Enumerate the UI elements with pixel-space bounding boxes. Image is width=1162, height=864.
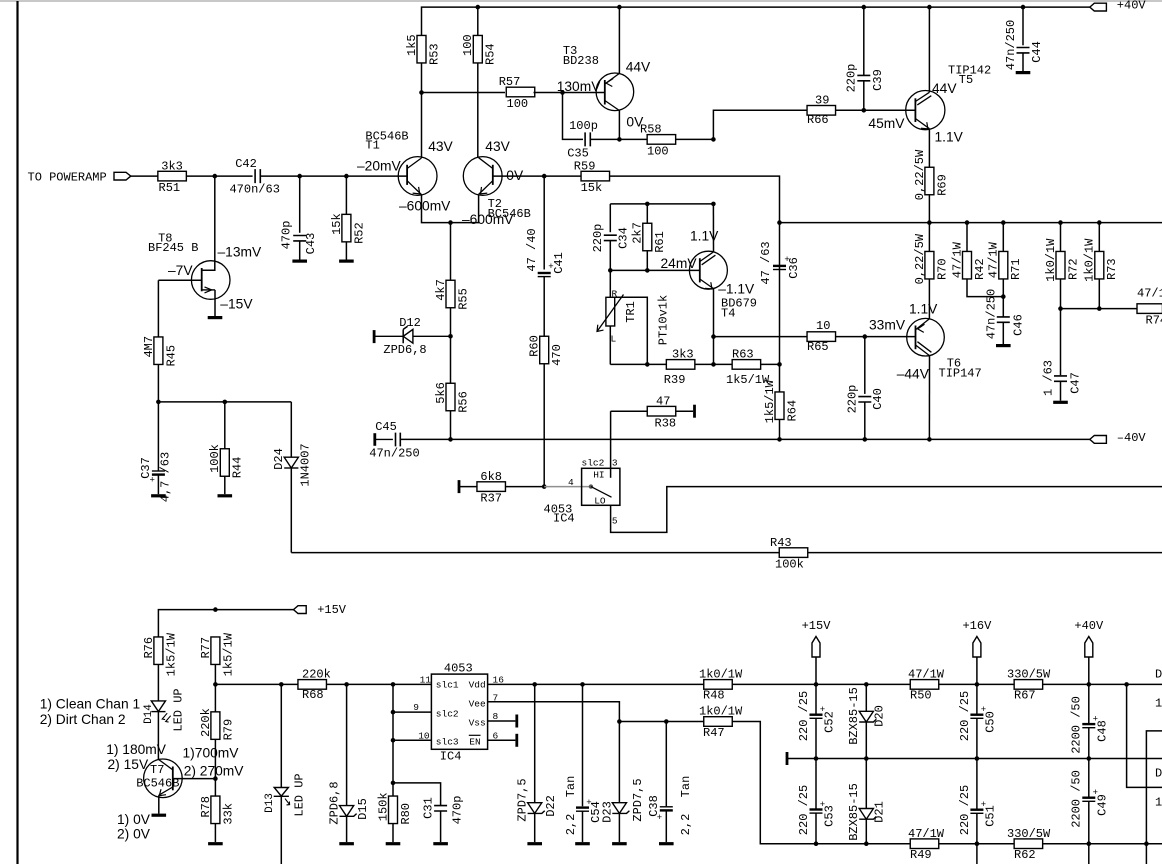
wire <box>779 364 781 392</box>
junction <box>448 334 453 339</box>
svg-text:1.1V: 1.1V <box>909 302 938 317</box>
wire <box>422 92 506 94</box>
wire Vdd net <box>732 683 1162 685</box>
wire <box>619 721 703 723</box>
wire <box>863 81 865 111</box>
svg-text:1k0/1W: 1k0/1W <box>1044 238 1058 282</box>
svg-text:R66: R66 <box>807 113 829 127</box>
svg-text:R49: R49 <box>910 848 932 862</box>
wire <box>440 811 442 842</box>
svg-text:100k: 100k <box>208 444 222 473</box>
wire <box>714 336 808 338</box>
junction <box>1124 682 1129 687</box>
ground C38 <box>659 842 674 845</box>
resistor R62 <box>1007 827 1051 862</box>
wire <box>1022 53 1024 71</box>
resistor R80 <box>376 792 413 824</box>
svg-text:1k0/1W: 1k0/1W <box>1083 238 1097 282</box>
wire <box>544 175 581 177</box>
svg-text:R63: R63 <box>732 348 754 362</box>
svg-text:43V: 43V <box>485 139 510 154</box>
wire <box>280 684 282 787</box>
junction <box>814 682 819 687</box>
wire <box>676 410 693 412</box>
svg-text:1.1V: 1.1V <box>690 229 719 244</box>
svg-text:C34: C34 <box>617 227 631 249</box>
ground C44 <box>1016 71 1031 74</box>
svg-text:R61: R61 <box>653 231 667 253</box>
svg-text:15k: 15k <box>330 213 344 235</box>
junction <box>213 174 218 179</box>
wire T5 emitter <box>928 129 930 168</box>
wire <box>609 326 611 364</box>
junction <box>1021 5 1026 10</box>
svg-text:D13: D13 <box>264 793 276 813</box>
junction <box>344 174 349 179</box>
svg-text:slc1: slc1 <box>436 680 459 691</box>
wire <box>450 411 452 440</box>
terminal pin 6 <box>515 734 518 747</box>
wire emitters <box>422 194 479 222</box>
svg-text:–44V: –44V <box>897 366 930 381</box>
svg-text:ZPD6,8: ZPD6,8 <box>383 343 426 357</box>
resistor R57 <box>499 75 535 111</box>
svg-text:1k5/1W: 1k5/1W <box>221 632 235 676</box>
ground D15 <box>339 842 354 845</box>
svg-text:R47: R47 <box>703 726 725 740</box>
svg-text:0,22/5W: 0,22/5W <box>913 149 927 200</box>
svg-text:330/5W: 330/5W <box>1007 827 1051 841</box>
capacitor C42 <box>229 157 279 196</box>
junction <box>1087 682 1092 687</box>
svg-text:1N4007: 1N4007 <box>299 443 313 486</box>
junction <box>344 682 349 687</box>
svg-text:0V: 0V <box>506 168 524 183</box>
svg-text:R52: R52 <box>352 222 366 244</box>
transistor T7 <box>136 759 182 798</box>
wire <box>299 241 301 260</box>
wire <box>157 665 159 701</box>
svg-text:1k5: 1k5 <box>405 34 419 56</box>
svg-text:2200 /50: 2200 /50 <box>1070 770 1084 828</box>
capacitor C46 <box>985 289 1026 339</box>
junction <box>645 268 650 273</box>
junction <box>777 220 782 225</box>
svg-text:R64: R64 <box>785 400 799 422</box>
wire <box>815 813 817 844</box>
svg-text:39: 39 <box>815 93 829 107</box>
ground C54 <box>575 842 590 845</box>
wire <box>1060 223 1062 252</box>
svg-text:C38: C38 <box>647 795 661 817</box>
wire +40V rail <box>422 7 1091 35</box>
svg-text:C45: C45 <box>375 420 397 434</box>
svg-text:10: 10 <box>816 319 830 333</box>
svg-text:470p: 470p <box>450 796 464 825</box>
svg-text:44V: 44V <box>626 60 651 75</box>
wire bias net <box>158 401 291 403</box>
svg-text:R65: R65 <box>807 340 829 354</box>
capacitor C44 <box>1004 20 1044 70</box>
wire <box>779 420 781 440</box>
junction <box>1058 306 1063 311</box>
svg-text:D12: D12 <box>399 316 421 330</box>
wire T7 base <box>173 778 216 780</box>
svg-text:BF245 B: BF245 B <box>148 241 198 255</box>
svg-text:R59: R59 <box>574 159 596 173</box>
resistor R58 <box>640 123 676 159</box>
svg-text:R77: R77 <box>199 637 213 659</box>
wire <box>966 223 968 252</box>
wire <box>543 277 545 337</box>
wire <box>1088 759 1090 797</box>
wire <box>1098 223 1100 252</box>
junction <box>223 400 228 405</box>
svg-text:R55: R55 <box>456 288 470 310</box>
resistor R42 <box>950 241 987 280</box>
svg-text:BZX85-15: BZX85-15 <box>847 687 861 745</box>
svg-text:R42: R42 <box>973 258 987 280</box>
wire <box>695 363 732 365</box>
junction <box>864 841 869 846</box>
svg-text:220 /25: 220 /25 <box>797 785 811 835</box>
wire <box>214 824 216 843</box>
svg-text:–40V: –40V <box>1117 431 1147 445</box>
svg-text:47n/250: 47n/250 <box>985 289 999 339</box>
svg-text:T4: T4 <box>721 306 735 320</box>
wire <box>1002 322 1004 344</box>
wire <box>1088 728 1090 759</box>
resistor R51 <box>158 159 187 195</box>
wire <box>610 363 666 365</box>
svg-text:R43: R43 <box>770 536 792 550</box>
ground C31 <box>433 842 448 845</box>
wire <box>865 759 867 809</box>
svg-text:4: 4 <box>568 477 574 488</box>
junction <box>448 220 453 225</box>
svg-text:C40: C40 <box>871 388 885 410</box>
wire <box>299 176 301 233</box>
svg-text:R48: R48 <box>703 689 725 703</box>
svg-text:TO POWERAMP: TO POWERAMP <box>28 170 107 184</box>
wire T3 emitter <box>618 7 620 73</box>
svg-text:1.1V: 1.1V <box>935 130 964 145</box>
svg-text:R44: R44 <box>231 457 245 479</box>
junction <box>1087 841 1092 846</box>
svg-text:330/5W: 330/5W <box>1007 668 1051 682</box>
terminal R38 <box>693 405 696 418</box>
capacitor C54 <box>564 776 603 823</box>
zener D15 <box>328 781 370 824</box>
svg-text:R74: R74 <box>1146 313 1162 327</box>
wire <box>618 813 620 842</box>
svg-text:D20: D20 <box>873 705 887 727</box>
wire <box>186 175 252 177</box>
junction <box>1097 220 1102 225</box>
junction <box>542 484 547 489</box>
svg-text:1k0/1W: 1k0/1W <box>699 668 743 682</box>
wire <box>534 813 536 842</box>
svg-text:47/1W: 47/1W <box>908 668 945 682</box>
svg-text:R37: R37 <box>480 492 502 506</box>
svg-text:TIP147: TIP147 <box>939 367 982 381</box>
wire +15V rail <box>158 610 293 637</box>
svg-text:220k: 220k <box>199 708 213 737</box>
ground R44 <box>218 494 233 497</box>
svg-text:Vdd: Vdd <box>469 680 486 691</box>
svg-text:R50: R50 <box>910 689 932 703</box>
svg-text:4k7: 4k7 <box>434 279 448 301</box>
resistor R49 <box>908 827 945 862</box>
svg-text:+16V: +16V <box>962 619 992 633</box>
svg-text:D: D <box>1155 766 1162 780</box>
svg-text:ZPD7,5: ZPD7,5 <box>516 778 530 821</box>
wire <box>646 251 648 271</box>
wire <box>815 759 817 809</box>
terminal R37 <box>458 480 461 493</box>
resistor R47 <box>699 705 743 740</box>
svg-text:+40V: +40V <box>1074 619 1104 633</box>
svg-text:R73: R73 <box>1105 258 1119 280</box>
wire <box>346 684 348 805</box>
svg-text:2) 0V: 2) 0V <box>117 826 151 841</box>
svg-text:R45: R45 <box>164 345 178 367</box>
wire T6 emitter <box>928 356 930 440</box>
wire <box>1061 308 1138 310</box>
connector TO POWERAMP <box>114 172 131 180</box>
svg-text:TR1: TR1 <box>624 301 638 323</box>
wire <box>534 684 536 802</box>
junction <box>862 108 867 113</box>
resistor R55 <box>434 279 471 310</box>
svg-text:C50: C50 <box>983 711 997 733</box>
power flag -40V <box>1090 431 1147 445</box>
svg-text:R56: R56 <box>456 391 470 413</box>
junction <box>711 202 716 207</box>
wire <box>157 365 159 402</box>
junction <box>617 137 622 142</box>
svg-text:C36: C36 <box>787 257 801 279</box>
junction <box>711 362 716 367</box>
ground R80 <box>386 842 401 845</box>
svg-text:1k5/1W: 1k5/1W <box>164 632 178 676</box>
power flag +16V up <box>962 619 992 657</box>
svg-text:2200 /50: 2200 /50 <box>1070 696 1084 754</box>
transistor T4 <box>689 251 757 320</box>
svg-text:4M7: 4M7 <box>142 336 156 358</box>
resistor R59 <box>574 159 610 195</box>
svg-text:R69: R69 <box>935 174 949 196</box>
wire <box>646 204 648 223</box>
capacitor C48 <box>1070 696 1110 754</box>
LED D13 <box>264 773 307 816</box>
svg-text:3k3: 3k3 <box>161 159 183 173</box>
svg-text:–7V: –7V <box>168 263 193 278</box>
wire T1 collector <box>421 63 423 158</box>
wire <box>611 410 648 412</box>
svg-text:R68: R68 <box>302 688 324 702</box>
resistor R45 <box>142 336 179 367</box>
svg-text:1) 180mV: 1) 180mV <box>106 742 167 757</box>
svg-text:BD238: BD238 <box>563 54 599 68</box>
svg-text:+15V: +15V <box>802 619 832 633</box>
wire <box>1060 381 1062 400</box>
junction <box>1058 220 1063 225</box>
zener D21 <box>847 783 886 841</box>
wire <box>928 279 930 319</box>
wire <box>131 175 158 177</box>
power flag +40V up <box>1074 619 1104 657</box>
ground R78 <box>208 842 223 845</box>
wire T6 base <box>836 336 916 338</box>
svg-text:45mV: 45mV <box>868 116 905 131</box>
wire T8 drain <box>202 176 215 270</box>
wire <box>590 138 647 140</box>
capacitor C45 <box>369 420 419 461</box>
svg-text:R53: R53 <box>427 43 441 65</box>
svg-text:LED UP: LED UP <box>292 773 306 816</box>
wire <box>1002 279 1004 317</box>
svg-text:470n/63: 470n/63 <box>229 183 279 197</box>
wire <box>928 223 930 252</box>
capacitor C53 <box>797 785 837 835</box>
svg-text:R71: R71 <box>1009 258 1023 280</box>
diode D12 <box>374 316 450 357</box>
svg-text:C49: C49 <box>1095 794 1109 816</box>
svg-text:slc2: slc2 <box>582 458 605 469</box>
svg-text:47/1: 47/1 <box>1137 287 1162 301</box>
svg-text:Tan: Tan <box>679 776 693 798</box>
svg-text:C41: C41 <box>552 252 566 274</box>
svg-text:C47: C47 <box>1069 372 1083 394</box>
wire <box>976 657 978 714</box>
resistor R68 <box>298 668 331 702</box>
junction <box>391 738 396 743</box>
svg-text:47/1W: 47/1W <box>950 241 964 278</box>
wire T8 gate <box>158 279 201 281</box>
capacitor C51 <box>958 785 998 835</box>
svg-text:470: 470 <box>550 344 564 366</box>
wire <box>779 270 781 365</box>
svg-text:220p: 220p <box>845 64 859 93</box>
svg-text:C43: C43 <box>304 233 318 255</box>
svg-text:R70: R70 <box>935 258 949 280</box>
wire <box>713 110 807 139</box>
svg-text:47 /63: 47 /63 <box>759 241 773 284</box>
terminal pin 8 <box>515 715 518 728</box>
wire <box>1088 657 1090 723</box>
power flag +40V <box>1090 0 1147 13</box>
wire <box>450 223 452 281</box>
wire <box>976 759 978 809</box>
svg-text:R54: R54 <box>484 43 498 65</box>
wire <box>214 665 216 712</box>
junction <box>975 682 980 687</box>
resistor R78 <box>199 796 236 825</box>
wire R43 net left <box>291 552 779 554</box>
svg-text:100: 100 <box>507 97 529 111</box>
svg-text:R76: R76 <box>142 637 156 659</box>
svg-text:T5: T5 <box>959 73 973 87</box>
wire <box>543 364 545 487</box>
junction <box>1144 841 1149 846</box>
svg-text:EN: EN <box>469 736 480 747</box>
svg-text:D22: D22 <box>544 795 558 817</box>
wire T3 collector <box>618 111 620 140</box>
wire <box>506 486 545 488</box>
junction <box>1097 306 1102 311</box>
svg-text:47n/250: 47n/250 <box>1004 20 1018 70</box>
wire from off-sheet <box>1146 731 1162 844</box>
wire T8 source <box>214 290 216 316</box>
svg-text:0,22/5W: 0,22/5W <box>913 233 927 284</box>
svg-text:ZPD7,5: ZPD7,5 <box>631 778 645 821</box>
wire T7 emitter <box>158 795 160 813</box>
capacitor C47 <box>1041 360 1082 396</box>
transistor T8 <box>148 231 230 299</box>
junction <box>927 437 932 442</box>
junction <box>975 756 980 761</box>
wire <box>459 486 477 488</box>
wire ground rail <box>787 758 1162 760</box>
svg-text:LO: LO <box>594 496 606 507</box>
wire <box>157 712 159 760</box>
wire <box>665 811 667 842</box>
wire <box>976 813 978 864</box>
junction <box>814 841 819 846</box>
wire <box>280 796 282 864</box>
transistor T3 <box>563 44 634 111</box>
svg-text:R60: R60 <box>528 335 542 357</box>
svg-text:D15: D15 <box>356 798 370 820</box>
wire <box>976 718 978 758</box>
junction <box>864 682 869 687</box>
svg-text:220p: 220p <box>846 385 860 414</box>
svg-text:R79: R79 <box>221 719 235 741</box>
junction <box>297 174 302 179</box>
svg-text:33k: 33k <box>221 803 235 825</box>
svg-text:C46: C46 <box>1012 314 1026 336</box>
wire <box>224 476 226 494</box>
ground T7 <box>152 814 167 817</box>
resistor R50 <box>908 668 945 703</box>
junction <box>645 362 650 367</box>
svg-text:HI: HI <box>593 469 604 480</box>
wire <box>761 363 780 365</box>
wire <box>543 176 545 269</box>
capacitor C38 <box>647 776 693 823</box>
transistor T1 <box>365 129 437 195</box>
svg-text:2) 270mV: 2) 270mV <box>184 763 245 778</box>
svg-text:+15V: +15V <box>317 603 347 617</box>
wire switch pin 3 <box>610 411 612 478</box>
sheet frame <box>0 0 1162 2</box>
svg-text:2) Dirt Chan 2: 2) Dirt Chan 2 <box>40 712 126 727</box>
wire <box>392 824 394 843</box>
wire <box>582 684 584 806</box>
junction <box>965 220 970 225</box>
wire <box>779 223 781 270</box>
svg-text:R62: R62 <box>1014 848 1036 862</box>
wire <box>610 203 713 205</box>
wire <box>815 657 817 714</box>
capacitor C43 <box>280 221 319 255</box>
ground R52 <box>339 260 354 263</box>
wire R59 to C36 node <box>610 176 780 223</box>
resistor R43 <box>770 536 808 572</box>
junction <box>391 682 396 687</box>
junction <box>542 174 547 179</box>
